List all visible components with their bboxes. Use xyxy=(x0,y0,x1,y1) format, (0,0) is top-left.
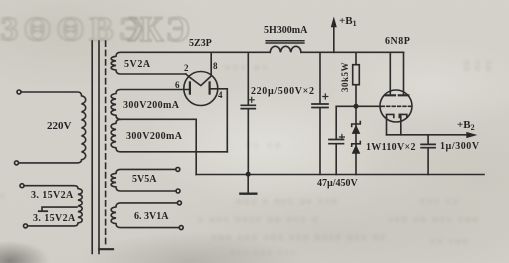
label 300V200mA #1 xyxy=(123,100,179,111)
pin 4 xyxy=(218,90,223,100)
terminal 6.3V top xyxy=(177,201,181,205)
6N8P cathode left xyxy=(387,114,394,117)
primary winding 3.15V2A upper+lower xyxy=(25,186,83,226)
pin 6 xyxy=(175,80,180,90)
capacitor 220u #1 plates xyxy=(241,105,255,108)
terminal 220V top xyxy=(17,90,21,94)
6N8P cathode right xyxy=(399,114,407,117)
B2 output line xyxy=(387,134,467,136)
6N8P plate stems xyxy=(390,52,403,94)
node: grid / VR top junction xyxy=(354,104,359,109)
capacitor 220u #2 lead xyxy=(319,52,321,174)
choke 5H300mA winding humps xyxy=(270,46,301,52)
label +B1 xyxy=(339,15,357,28)
terminal 3.15V bottom xyxy=(24,224,28,228)
label 1W110Vx2 xyxy=(366,142,416,153)
+B1 riser and arrow xyxy=(333,25,335,52)
triode 6N8P envelope xyxy=(380,90,412,122)
cathode leads down xyxy=(387,114,401,134)
label 6N8P xyxy=(385,36,410,47)
polarity plus cap1 xyxy=(249,97,254,102)
capacitor 1u/300V xyxy=(427,135,429,175)
label +B2 xyxy=(457,119,475,132)
transformer T1 core xyxy=(92,41,99,254)
label 6.3V1A xyxy=(134,211,168,222)
label 5V2A xyxy=(124,59,151,70)
terminal 5V5A top xyxy=(176,167,180,171)
primary winding 220V xyxy=(20,92,86,163)
terminal 220V bottom xyxy=(15,161,19,165)
6N8P grid (dashed) xyxy=(382,105,411,107)
pin 2 xyxy=(184,63,189,73)
junction dot on ground bus xyxy=(246,172,251,177)
zener VR tube 1 xyxy=(352,125,361,134)
6N8P plate bars xyxy=(386,94,409,96)
polarity plus cap2 xyxy=(323,94,328,99)
label 3.15V2A lower xyxy=(33,213,76,224)
secondary winding 5V5A xyxy=(111,169,176,191)
ground bus xyxy=(196,174,484,176)
capacitor 47u plates xyxy=(329,140,344,144)
secondary winding 300V200mA #1 (to plate 6) xyxy=(111,90,196,120)
label 47u/450V xyxy=(317,178,358,189)
capacitor 220u #2 plates xyxy=(312,104,328,108)
top bus after choke xyxy=(301,51,404,53)
5Z3P plate pin6 bar xyxy=(189,82,191,93)
label 5V5A xyxy=(132,174,156,185)
label 30k5W (rotated) xyxy=(340,59,350,95)
choke 5H300mA core bars xyxy=(266,41,304,43)
shield chassis bar xyxy=(99,248,113,250)
5Z3P filament V with pin2 lead xyxy=(186,52,211,85)
label 5Z3P xyxy=(189,38,212,49)
resistor 30k5W leads xyxy=(355,52,357,174)
grid node wire to 47u corner xyxy=(336,106,381,139)
label 220V xyxy=(47,120,71,132)
capacitor 47u bottom lead xyxy=(335,145,337,175)
secondary winding 6.3V1A xyxy=(111,203,179,228)
transformer shield line (dashed) xyxy=(105,41,107,248)
HT centre tap down lead xyxy=(195,119,197,174)
bleed-through ghost text xyxy=(0,11,148,49)
terminal 6.3V bottom xyxy=(179,226,183,230)
label 5H300mA xyxy=(264,25,307,36)
resistor 30k5W body xyxy=(353,65,360,85)
5Z3P plate pin4 bar xyxy=(209,82,211,93)
pin 8 xyxy=(213,61,218,71)
terminal 3.15V top xyxy=(20,184,24,188)
polarity plus cap47 xyxy=(339,135,344,140)
rectifier 5Z3P envelope xyxy=(184,72,218,106)
label 1u/300V xyxy=(440,141,480,152)
secondary winding 300V200mA #2 (to plate 4) xyxy=(111,119,227,152)
secondary winding 5V2A + top B bus to choke xyxy=(111,52,270,74)
capacitor 220u #1 lead xyxy=(247,52,249,174)
series tap stub xyxy=(42,207,77,211)
label 3.15V2A upper xyxy=(31,190,74,201)
wire pin4 to 300V#2 xyxy=(210,89,228,152)
label 300V200mA #2 xyxy=(126,131,182,142)
ground symbol xyxy=(247,175,249,193)
label 220u/500Vx2 xyxy=(251,86,315,97)
zener VR tube 2 xyxy=(352,145,361,154)
terminal 5V5A bottom xyxy=(176,189,180,193)
